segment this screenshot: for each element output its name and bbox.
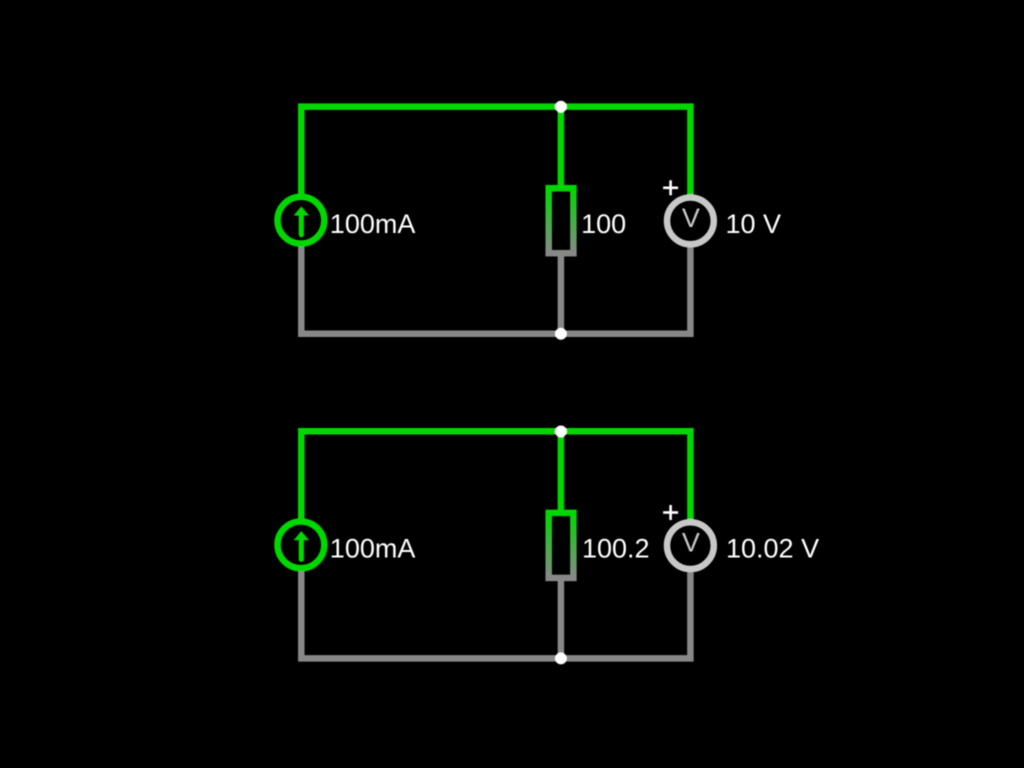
svg-text:V: V [682,203,700,233]
svg-text:V: V [682,528,700,558]
svg-text:100mA: 100mA [330,534,416,564]
svg-text:100mA: 100mA [330,209,416,239]
svg-text:100: 100 [581,209,626,239]
svg-text:10.02 V: 10.02 V [726,534,819,564]
svg-text:10 V: 10 V [726,209,782,239]
svg-text:100.2: 100.2 [582,534,650,564]
